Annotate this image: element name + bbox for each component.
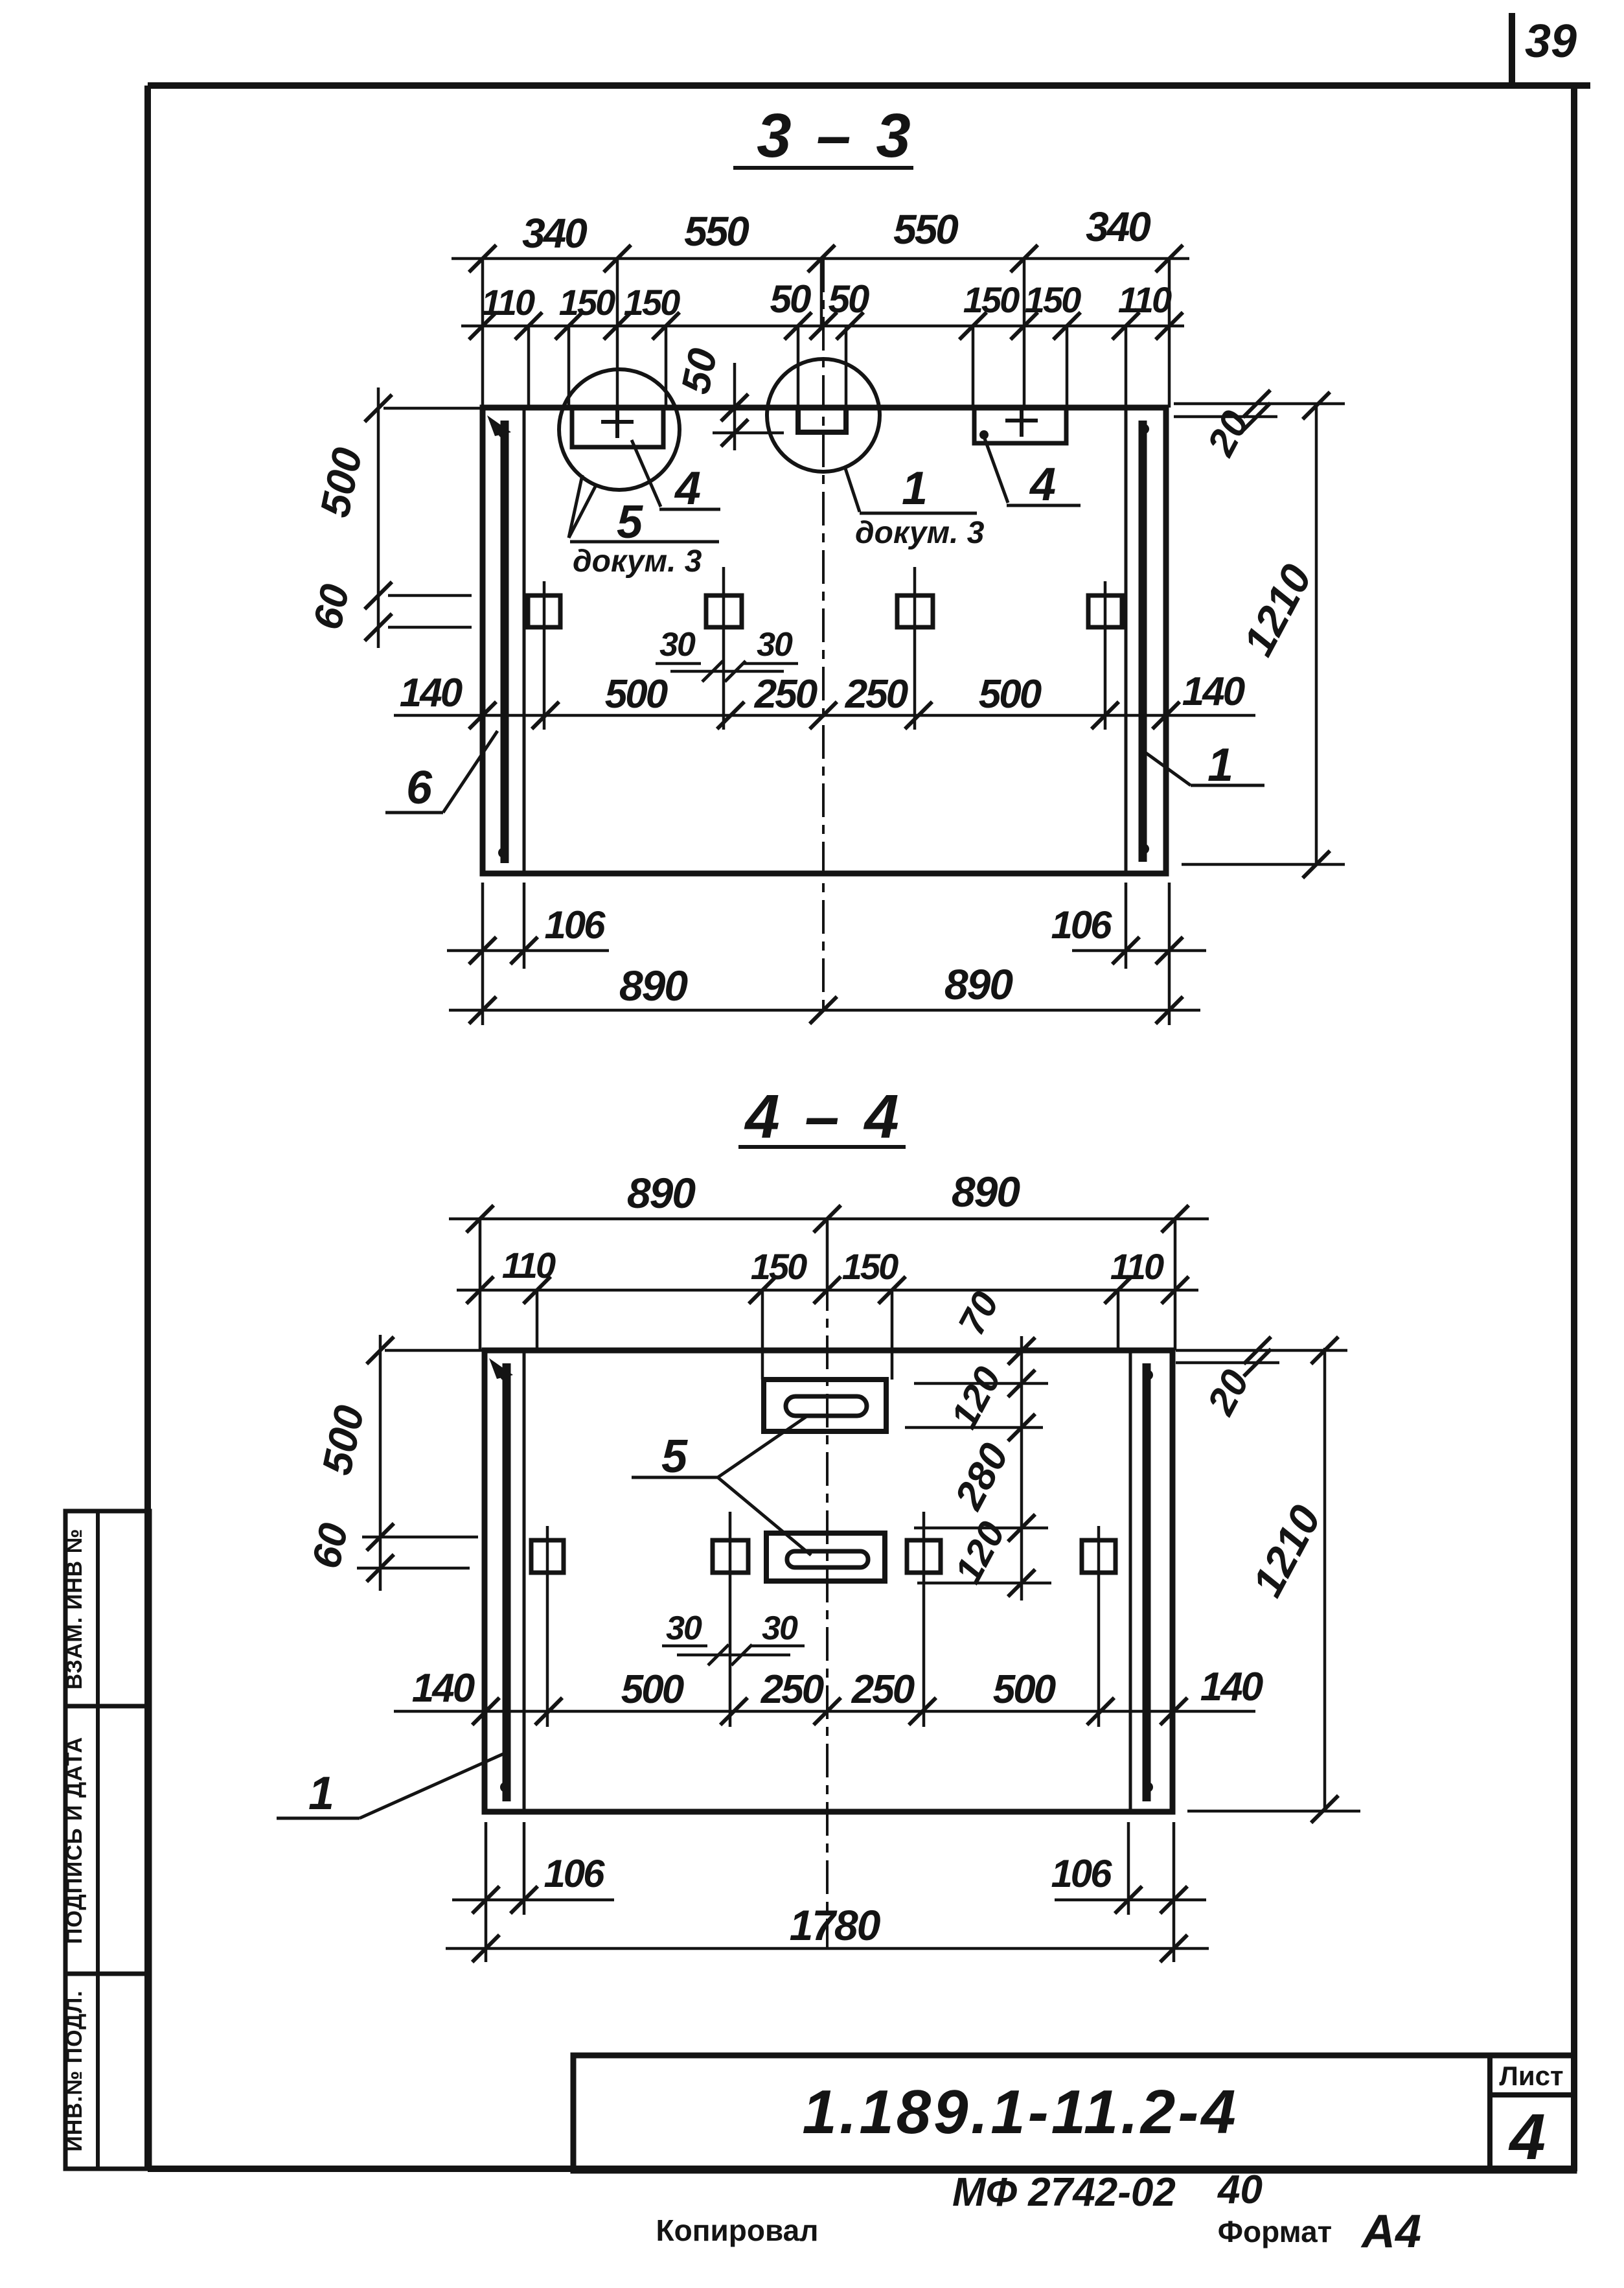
view 3-3 panel outline bbox=[483, 408, 1166, 873]
dimension chain 140 500 250 250 500 140 bbox=[394, 714, 1255, 717]
svg-text:140: 140 bbox=[1182, 669, 1245, 714]
svg-text:140: 140 bbox=[1200, 1665, 1263, 1709]
page number 39 top right bbox=[1509, 13, 1515, 82]
svg-text:ВЗАМ. ИНВ №: ВЗАМ. ИНВ № bbox=[62, 1528, 87, 1689]
leader label 1 docum 3 on notch bbox=[845, 468, 860, 512]
svg-text:ИНВ.№ ПОДЛ.: ИНВ.№ ПОДЛ. bbox=[62, 1990, 87, 2151]
leader label 5 slots bbox=[632, 1476, 718, 1479]
svg-text:500: 500 bbox=[605, 672, 668, 717]
detail circle on centre notch bbox=[767, 359, 880, 472]
svg-text:110: 110 bbox=[502, 1245, 556, 1286]
dimension chain 890 890 top bbox=[449, 1218, 1209, 1221]
dimension chain 340 550 550 340 bbox=[452, 257, 1189, 260]
svg-text:550: 550 bbox=[893, 206, 958, 253]
svg-text:890: 890 bbox=[944, 960, 1013, 1008]
svg-text:5: 5 bbox=[617, 496, 643, 548]
view 3-3 anchor loops row bbox=[528, 595, 560, 627]
svg-text:150: 150 bbox=[1025, 279, 1081, 320]
dimension chain 110 150 150 110 bbox=[457, 1289, 1198, 1292]
dimension chain 110 150 150 50 50 150 150 110 bbox=[461, 325, 1184, 328]
svg-text:30: 30 bbox=[757, 626, 793, 664]
svg-text:ПОДПИСЬ И ДАТА: ПОДПИСЬ И ДАТА bbox=[62, 1737, 87, 1944]
svg-text:5: 5 bbox=[661, 1431, 688, 1483]
svg-text:250: 250 bbox=[851, 1667, 915, 1712]
leader label 1 left bar 4-4 bbox=[277, 1817, 360, 1820]
svg-text:1780: 1780 bbox=[790, 1901, 881, 1949]
svg-text:500: 500 bbox=[993, 1667, 1056, 1712]
svg-text:250: 250 bbox=[754, 672, 818, 717]
svg-text:Копировал: Копировал bbox=[656, 2213, 819, 2247]
view 4-4 anchor loops row bbox=[531, 1540, 564, 1573]
view 3-3 centre line bbox=[822, 259, 825, 1010]
svg-text:340: 340 bbox=[522, 210, 587, 257]
svg-text:106: 106 bbox=[543, 1852, 605, 1895]
svg-text:150: 150 bbox=[842, 1246, 898, 1287]
loop centre extension lines bbox=[543, 581, 546, 730]
svg-text:890: 890 bbox=[619, 962, 688, 1010]
svg-text:4 – 4: 4 – 4 bbox=[744, 1082, 903, 1151]
dimension 106 left 4-4 bbox=[485, 1822, 488, 1962]
view 4-4 centre line bbox=[826, 1219, 829, 1948]
view 3-3 left embedded channel bar bbox=[501, 421, 509, 863]
leader label 4 on left recess bbox=[632, 440, 661, 507]
view 3-3 right recess item 4 bbox=[974, 408, 1066, 443]
svg-text:1.189.1-11.2-4: 1.189.1-11.2-4 bbox=[802, 2077, 1238, 2147]
svg-text:39: 39 bbox=[1525, 16, 1577, 67]
view 4-4 upper lifting slot item 5 bbox=[764, 1380, 886, 1431]
svg-text:Формат: Формат bbox=[1218, 2215, 1332, 2248]
svg-text:500: 500 bbox=[621, 1667, 684, 1712]
svg-text:150: 150 bbox=[963, 279, 1020, 320]
leader label 5 docum 3 bbox=[569, 475, 582, 538]
svg-text:4: 4 bbox=[1029, 459, 1056, 511]
view 3-3 left recess item 5 bbox=[572, 408, 663, 447]
view 4-4 left embedded channel bar bbox=[503, 1363, 511, 1801]
extension lines top dims bbox=[481, 259, 485, 408]
svg-text:докум. 3: докум. 3 bbox=[855, 516, 985, 550]
svg-text:110: 110 bbox=[1110, 1246, 1164, 1287]
svg-text:1: 1 bbox=[902, 463, 928, 514]
view 3-3 centre notch item 1 bbox=[798, 408, 846, 432]
svg-text:60: 60 bbox=[304, 1520, 357, 1573]
dimension 106 left bbox=[523, 883, 526, 969]
svg-text:340: 340 bbox=[1086, 203, 1150, 250]
svg-text:150: 150 bbox=[624, 282, 680, 323]
leader label 4 on right recess bbox=[984, 437, 1008, 503]
svg-text:50: 50 bbox=[770, 277, 811, 321]
svg-text:250: 250 bbox=[761, 1667, 824, 1712]
svg-text:докум. 3: докум. 3 bbox=[573, 544, 702, 579]
dimension 20 top right 4-4 bbox=[1176, 1349, 1347, 1352]
svg-text:106: 106 bbox=[1051, 903, 1112, 947]
dimension 106 right 4-4 bbox=[1172, 1822, 1176, 1962]
dimension 1210 right bbox=[1315, 404, 1318, 866]
view 4-4 right embedded channel bar bbox=[1143, 1363, 1151, 1801]
view 4-4 lower lifting slot item 5 bbox=[766, 1533, 885, 1581]
svg-text:140: 140 bbox=[400, 671, 463, 715]
svg-text:140: 140 bbox=[412, 1666, 475, 1711]
dimension 1210 right 4-4 bbox=[1323, 1348, 1327, 1811]
svg-text:250: 250 bbox=[845, 672, 908, 717]
dimension 20 top right bbox=[1174, 415, 1277, 419]
svg-text:50: 50 bbox=[673, 345, 726, 398]
svg-text:40: 40 bbox=[1217, 2167, 1263, 2212]
dimension chain 140 500 250 250 500 140 4-4 bbox=[394, 1710, 1255, 1713]
svg-text:1: 1 bbox=[308, 1768, 334, 1820]
drawing frame border bbox=[148, 82, 1590, 89]
svg-text:50: 50 bbox=[829, 277, 869, 321]
view 4-4 panel outline bbox=[485, 1350, 1172, 1812]
svg-text:106: 106 bbox=[1051, 1852, 1112, 1895]
svg-text:106: 106 bbox=[544, 903, 606, 947]
svg-text:550: 550 bbox=[684, 208, 749, 255]
dimension 106 right bbox=[1125, 883, 1128, 969]
left margin stamp column bbox=[65, 1511, 150, 2169]
leader label 1 right bar bbox=[1191, 784, 1264, 787]
svg-text:110: 110 bbox=[1118, 279, 1172, 320]
svg-text:6: 6 bbox=[406, 762, 433, 814]
svg-text:150: 150 bbox=[559, 282, 615, 323]
extension lines top dims 4-4 bbox=[479, 1219, 482, 1350]
svg-text:30: 30 bbox=[762, 1610, 798, 1647]
svg-text:30: 30 bbox=[659, 626, 696, 664]
svg-text:3 – 3: 3 – 3 bbox=[757, 101, 915, 170]
loop centre extension lines 4-4 bbox=[546, 1526, 549, 1727]
dimension chain vertical 70 120 280 120 bbox=[1020, 1336, 1024, 1600]
detail circle on left recess bbox=[559, 369, 680, 490]
svg-text:4: 4 bbox=[674, 463, 701, 514]
dimension 890 890 bottom bbox=[449, 1009, 1200, 1012]
svg-text:30: 30 bbox=[666, 1610, 702, 1647]
svg-text:890: 890 bbox=[952, 1168, 1020, 1216]
svg-text:500: 500 bbox=[979, 672, 1042, 717]
dimension 1780 bottom bbox=[446, 1947, 1209, 1950]
dimension 500 left bbox=[377, 387, 380, 648]
leader label 6 left bar bbox=[385, 811, 443, 815]
svg-text:Лист: Лист bbox=[1499, 2061, 1563, 2091]
svg-text:60: 60 bbox=[305, 581, 358, 634]
svg-text:4: 4 bbox=[1508, 2101, 1546, 2173]
svg-text:МФ 2742-02: МФ 2742-02 bbox=[952, 2170, 1176, 2215]
svg-text:150: 150 bbox=[751, 1246, 807, 1287]
svg-text:110: 110 bbox=[481, 282, 535, 323]
svg-text:890: 890 bbox=[627, 1169, 696, 1217]
svg-text:А4: А4 bbox=[1360, 2206, 1421, 2258]
view 3-3 right embedded channel bar bbox=[1139, 421, 1147, 862]
dimension 50 notch depth bbox=[733, 363, 737, 450]
dimension 500 left 4-4 bbox=[379, 1335, 382, 1591]
svg-text:1: 1 bbox=[1207, 739, 1233, 791]
title block bbox=[573, 2055, 1574, 2171]
